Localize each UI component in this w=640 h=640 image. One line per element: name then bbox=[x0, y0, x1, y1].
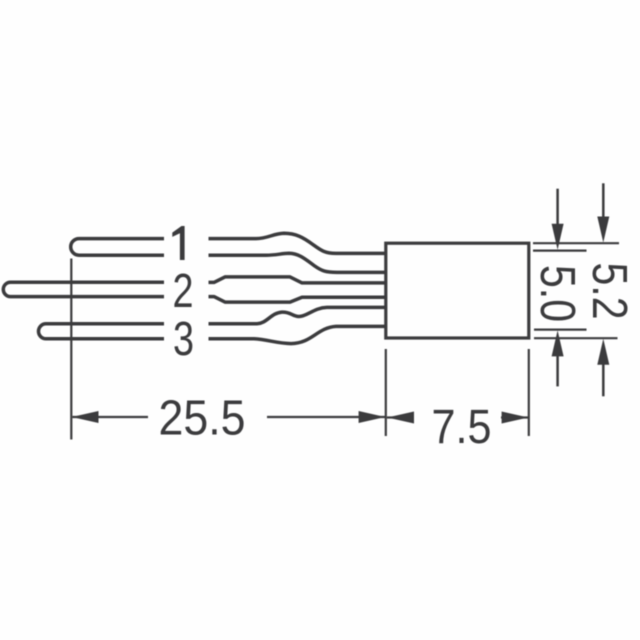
lead 3 left segment with rounded end cap bbox=[39, 324, 165, 339]
arrowhead 7.5 left bbox=[387, 412, 414, 424]
dimension line 7.5 left stub bbox=[387, 416, 414, 418]
bottom inner extension line (5.0) bbox=[534, 329, 587, 331]
dimension line 7.5 right stub bbox=[501, 416, 528, 418]
arrow stem 5.0 bottom bbox=[556, 350, 559, 386]
svg-text:5.0: 5.0 bbox=[530, 265, 584, 322]
lead 2 right bottom outline bbox=[209, 297, 388, 303]
arrowhead 5.2 bottom (up) bbox=[597, 339, 609, 365]
lead 1 right bottom outline bbox=[209, 253, 388, 272]
dimension line 25.5 left segment bbox=[73, 416, 149, 418]
arrow stem 5.0 top bbox=[556, 189, 559, 232]
lead 3 right top outline (wavy twist crimp) bbox=[209, 307, 388, 323]
arrow stem 5.2 top bbox=[602, 183, 605, 224]
top inner extension line (5.0) bbox=[533, 250, 587, 252]
arrowhead 7.5 right bbox=[502, 412, 529, 424]
arrowhead 5.0 top (down) bbox=[552, 224, 564, 250]
extension line below body left edge bbox=[385, 349, 387, 436]
lead 1 left segment with rounded end cap bbox=[71, 239, 164, 256]
svg-text:7.5: 7.5 bbox=[432, 401, 492, 454]
extension line at lead tips (left, x=71.3) bbox=[70, 259, 72, 440]
svg-text:3: 3 bbox=[173, 313, 194, 366]
lead 2 right top outline (hexagonal widened crimp) bbox=[209, 277, 388, 283]
dimension line 25.5 right segment bbox=[267, 416, 385, 418]
lead 1 right top outline (S-bend down toward body) bbox=[209, 233, 388, 253]
arrowhead 25.5 right bbox=[359, 411, 386, 423]
bottom outer extension line (5.2 at body bottom) bbox=[534, 337, 618, 339]
arrow stem 5.2 bottom bbox=[602, 360, 605, 396]
arrowhead 5.0 bottom (up) bbox=[552, 330, 564, 356]
top outer extension line (5.2 at body top) bbox=[533, 242, 619, 244]
body rectangle of component bbox=[386, 243, 529, 338]
svg-text:25.5: 25.5 bbox=[159, 392, 246, 446]
svg-text:2: 2 bbox=[173, 265, 194, 318]
arrowhead 5.2 top (down) bbox=[597, 217, 609, 243]
lead 2 left segment with rounded end cap bbox=[3, 282, 164, 296]
pin number 1 bbox=[172, 226, 184, 260]
svg-text:5.2: 5.2 bbox=[582, 263, 636, 320]
lead 3 right bottom outline bbox=[209, 326, 388, 343]
extension line below body right edge bbox=[528, 349, 530, 436]
arrowhead 25.5 left bbox=[72, 411, 99, 423]
